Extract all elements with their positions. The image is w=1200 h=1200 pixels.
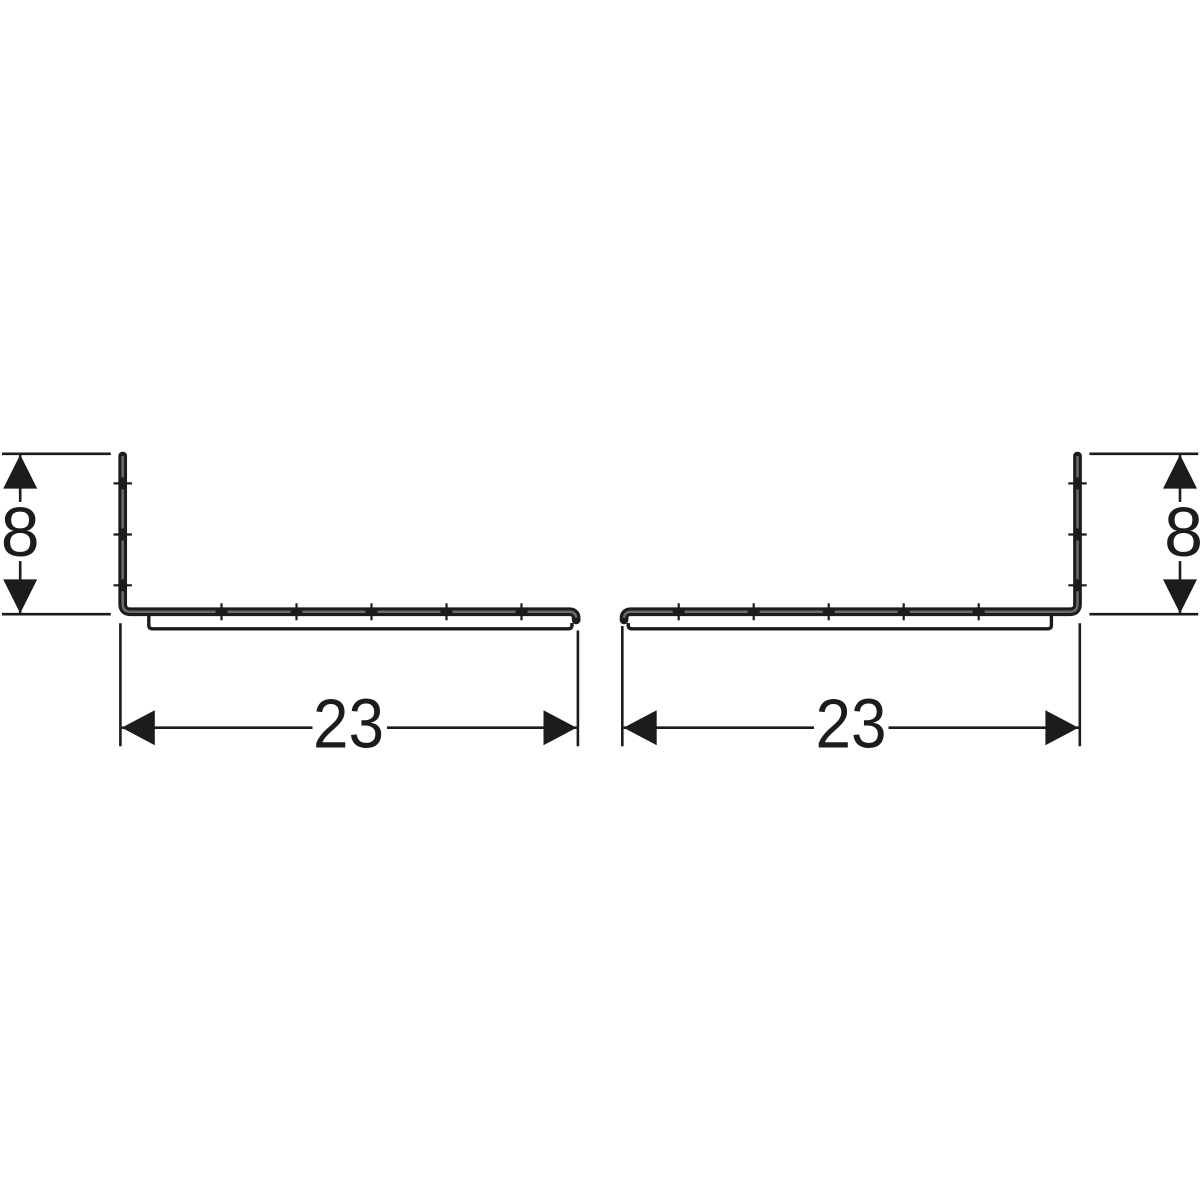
svg-text:23: 23 [313, 685, 384, 763]
svg-text:8: 8 [1164, 493, 1200, 571]
svg-text:8: 8 [1, 493, 40, 571]
svg-text:23: 23 [816, 685, 887, 763]
